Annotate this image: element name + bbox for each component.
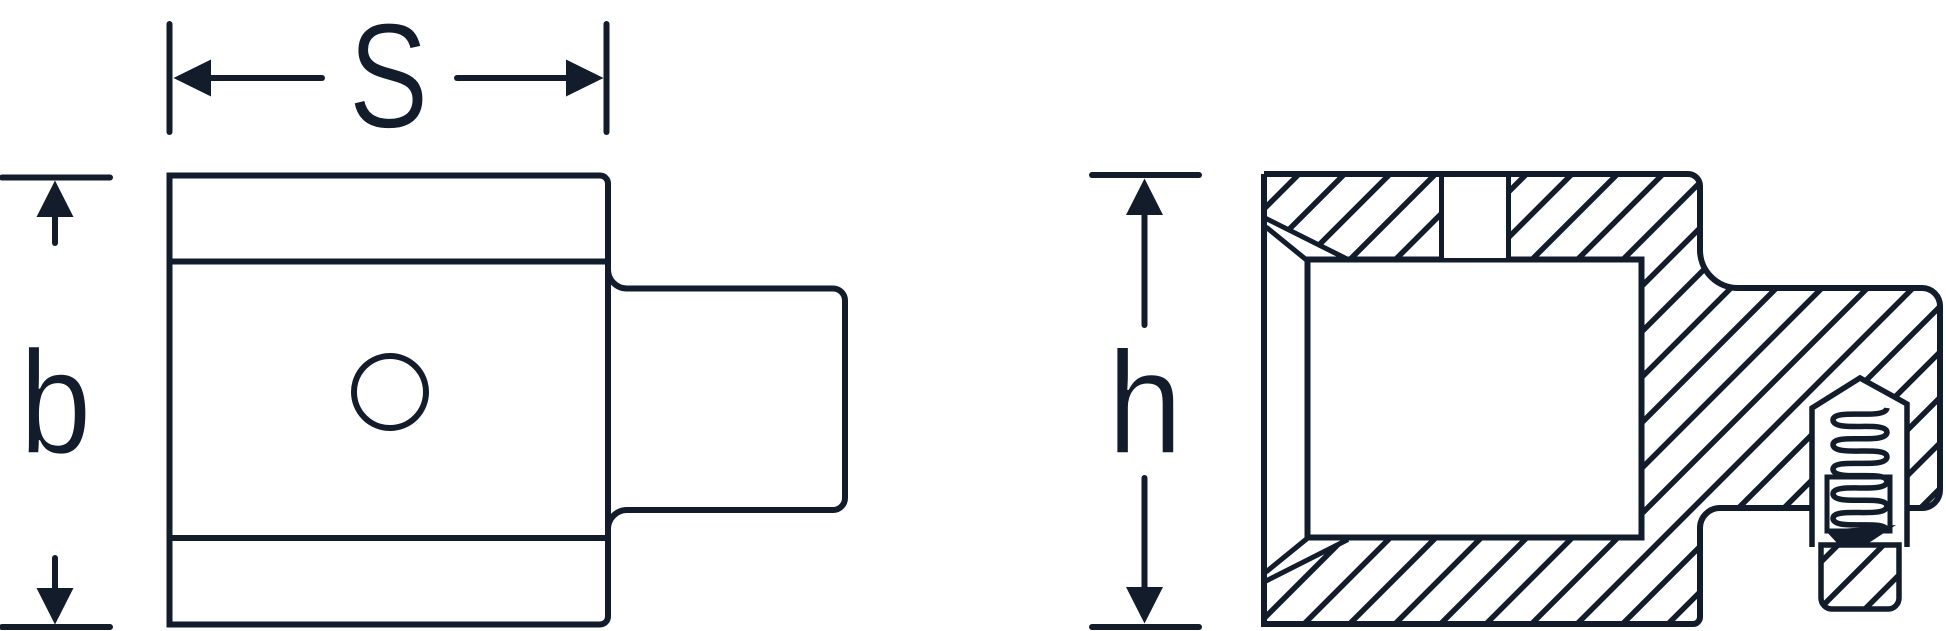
cavity outline [1308,260,1642,538]
chamfer edge top B [1266,227,1309,262]
dimension b top arrow [37,181,74,244]
dimension b top tick [2,175,110,181]
dimension h top arrow [1126,179,1163,326]
square drive tang (front view) [608,269,845,530]
dimension h top tick [1092,172,1199,178]
section body outline [1264,174,1940,624]
dimension h bottom arrow [1126,478,1163,624]
cross-drilled hole slot [1444,177,1508,258]
top divider line [170,259,609,265]
chamfer edge bottom B [1266,537,1309,572]
spring seat box [1827,477,1890,531]
dimension S extension line left [167,24,173,132]
chamfer edge top A [1266,219,1348,260]
svg-text:b: b [20,321,92,484]
dimension b bottom tick [2,624,110,630]
bottom divider line [170,535,609,541]
dimension S extension line right [604,24,610,132]
center hole [354,356,426,428]
section hatching [768,150,1946,631]
dimension S right arrow [457,60,604,97]
socket cavity (white) [1261,218,1348,263]
dimension b bottom arrow [37,558,74,625]
svg-text:S: S [348,0,428,160]
adapter body outline (front view) [170,176,609,625]
detent housing (pentagon) [1812,378,1907,547]
dimension h bottom tick [1092,624,1199,630]
detent ball wedge [1825,525,1896,556]
detent spring [1833,408,1887,531]
dimension S left arrow [174,60,323,97]
detent pin tip [768,150,1946,631]
svg-text:h: h [1107,320,1183,484]
chamfer edge bottom A [1266,540,1348,582]
